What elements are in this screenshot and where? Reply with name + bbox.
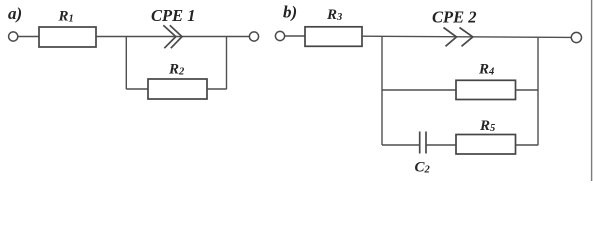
capacitor C2 bbox=[415, 132, 431, 176]
svg-text:CPE 2: CPE 2 bbox=[432, 8, 476, 27]
wire bbox=[382, 144, 420, 146]
CPE CPE2 bbox=[432, 8, 476, 47]
svg-text:R1: R1 bbox=[58, 8, 74, 24]
terminal T2 (right, circuit a) bbox=[249, 32, 258, 41]
svg-text:R3: R3 bbox=[326, 7, 342, 23]
svg-text:R2: R2 bbox=[168, 62, 185, 78]
wire bbox=[18, 36, 39, 38]
wire bbox=[382, 89, 456, 91]
resistor R2 bbox=[148, 62, 207, 99]
wire bbox=[207, 88, 227, 90]
resistor R5 bbox=[456, 118, 516, 154]
terminal T1 (left, circuit a) bbox=[9, 32, 18, 41]
wire bbox=[126, 88, 148, 90]
terminal T3 (left, circuit b) bbox=[275, 31, 284, 40]
resistor R1 bbox=[39, 8, 96, 47]
wire bbox=[516, 89, 539, 91]
wire bbox=[426, 144, 456, 146]
node C (left junction, circuit b) bbox=[381, 36, 383, 145]
svg-text:a): a) bbox=[8, 4, 22, 23]
svg-text:b): b) bbox=[283, 3, 297, 22]
wire bbox=[285, 35, 305, 37]
svg-text:CPE 1: CPE 1 bbox=[151, 6, 195, 25]
svg-text:R5: R5 bbox=[479, 118, 495, 134]
node D (right junction, circuit b) bbox=[537, 37, 539, 145]
wire bbox=[516, 144, 539, 146]
resistor R4 bbox=[456, 61, 516, 99]
CPE CPE1 bbox=[151, 6, 195, 48]
node A (left junction, circuit a) bbox=[125, 37, 127, 90]
wire bbox=[362, 36, 572, 37]
terminal T4 (right, circuit b) bbox=[571, 32, 581, 42]
svg-text:C2: C2 bbox=[415, 159, 431, 175]
wire bbox=[96, 36, 249, 38]
node B (right junction, circuit a) bbox=[226, 37, 228, 90]
resistor R3 bbox=[305, 7, 362, 46]
svg-text:R4: R4 bbox=[478, 61, 494, 77]
